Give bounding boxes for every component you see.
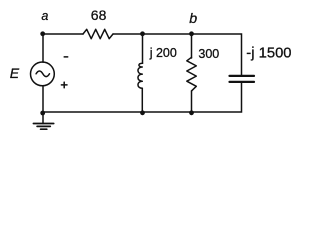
plus sign of source: [61, 84, 67, 86]
ac source sine symbol: [36, 71, 49, 77]
ground bar 1: [33, 123, 53, 125]
svg-text:j 200: j 200: [149, 46, 177, 60]
wire: node a down to source top: [42, 34, 44, 62]
svg-text:-j 1500: -j 1500: [246, 46, 291, 62]
junction dot bottom of inductor: [140, 110, 145, 115]
wire: resistor to node b and on to top-right corner: [113, 34, 242, 75]
wire: top left segment node a to resistor: [43, 33, 83, 35]
wire: source bottom down to ground node: [42, 86, 44, 113]
resistor branch 300: top wire from node b: [191, 34, 193, 58]
svg-text:68: 68: [91, 7, 107, 23]
resistor branch 300: bottom wire to rail: [191, 91, 193, 112]
inductor branch: bottom wire to rail: [141, 88, 143, 112]
svg-text:b: b: [189, 11, 197, 27]
svg-text:a: a: [41, 9, 48, 23]
resistor R 68 (zigzag): [83, 29, 113, 38]
svg-text:300: 300: [198, 47, 219, 61]
junction dot top of inductor: [140, 31, 145, 36]
inductor L j200 coil: [138, 63, 143, 88]
node a junction dot: [40, 31, 45, 36]
wire: capacitor bottom plate down to bottom rail: [43, 83, 242, 112]
ground stub: [42, 113, 44, 124]
resistor R 300 (vertical zigzag): [187, 57, 197, 91]
junction dot bottom of 300 resistor: [189, 110, 194, 115]
ground bar 2: [37, 125, 50, 127]
svg-text:E: E: [10, 65, 20, 81]
ground bar 3: [41, 128, 47, 130]
capacitor C -j1500 plates: [230, 75, 255, 77]
node b junction dot: [189, 31, 194, 36]
minus sign of source: [64, 56, 68, 58]
ground node junction dot: [40, 111, 45, 116]
ac source E circle: [31, 62, 55, 86]
inductor branch: top wire from rail: [142, 34, 144, 63]
